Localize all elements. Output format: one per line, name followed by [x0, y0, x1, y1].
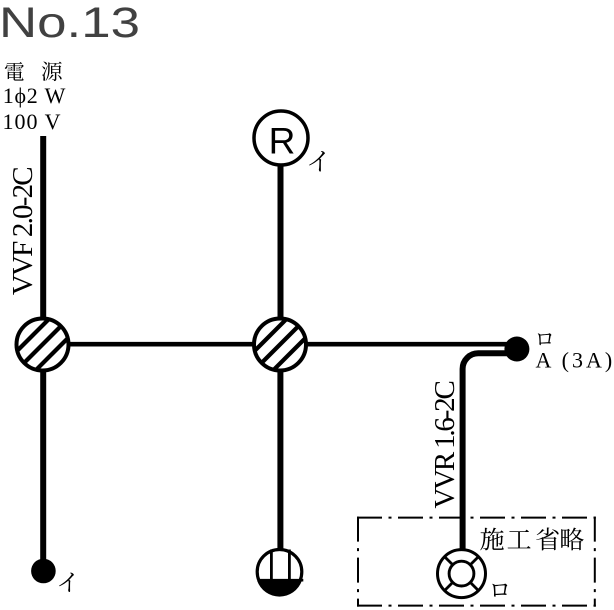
wire: VVR run from terminal ロ curving down to receptacle: [463, 353, 516, 552]
terminal dot ロ with ammeter: [504, 337, 529, 362]
dashed box (bottom border): [357, 605, 596, 607]
junction box (left): [13, 315, 72, 374]
dashed box (right border): [594, 517, 596, 607]
label kanji 施: [480, 528, 504, 551]
wire: left junction down to terminal イ: [40, 344, 46, 563]
svg-text:1ϕ2 W: 1ϕ2 W: [3, 83, 66, 108]
terminal dot イ (bottom left): [31, 559, 56, 584]
svg-text:No.13: No.13: [0, 0, 140, 47]
svg-text:VVF 2.0-2C: VVF 2.0-2C: [7, 168, 39, 295]
svg-text:VVR 1.6-2C: VVR 1.6-2C: [429, 382, 461, 509]
ceiling device 引掛シーリング: [257, 550, 303, 597]
junction box (right): [251, 315, 310, 374]
lamp R (circle symbol): [254, 111, 308, 165]
svg-text:R: R: [269, 120, 296, 161]
label イ (bottom terminal): [59, 573, 74, 592]
wire: lamp R drop to right junction: [278, 150, 284, 345]
dashed box (left border): [357, 517, 359, 607]
label kanji 省: [536, 528, 558, 551]
label イ (lamp R circuit): [309, 151, 325, 172]
label kanji 略: [561, 528, 584, 551]
dashed box 施工省略 (top border): [357, 517, 596, 519]
wire: horizontal main run between junctions to terminal ロ: [43, 342, 516, 347]
lamp receptacle (circle with spokes): [438, 550, 486, 598]
label kanji 源 (source): [42, 62, 62, 82]
label ロ (ammeter circuit): [538, 333, 552, 345]
label ロ (receptacle circuit): [492, 584, 507, 597]
wire: source feed vertical (VVF) into left junction: [40, 136, 46, 345]
svg-text:100 V: 100 V: [3, 109, 62, 134]
svg-text:A (3A): A (3A): [536, 348, 614, 373]
label kanji 電 (electric): [5, 62, 24, 81]
label kanji 工: [508, 530, 531, 549]
wire: right junction down to ceiling device: [277, 344, 283, 552]
